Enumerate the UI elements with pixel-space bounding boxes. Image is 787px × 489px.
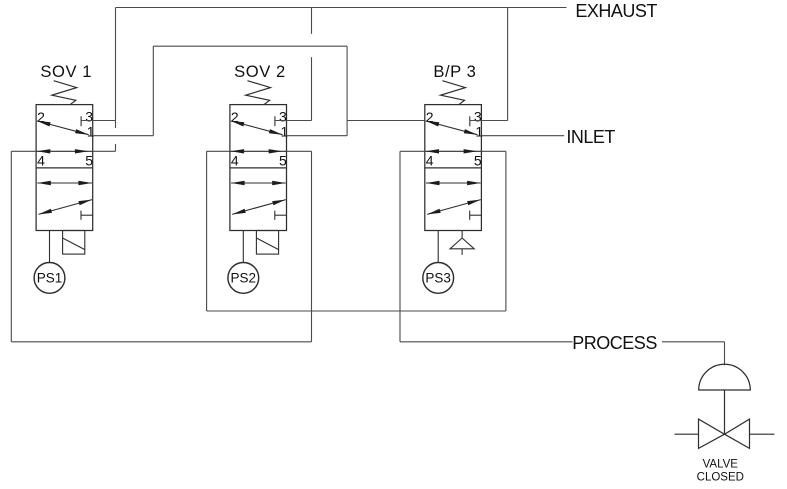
wire B/P3 port3 stub bbox=[470, 120, 508, 122]
flow path 4-5 arrow SOV 2 bbox=[230, 150, 287, 152]
control valve body right bbox=[725, 419, 750, 448]
wire SOV1 port4 stub bbox=[11, 150, 36, 152]
wire crossover left drop to SOV1 port1 bbox=[152, 46, 154, 136]
svg-text:INLET: INLET bbox=[566, 127, 615, 147]
wire B/P3 port5 drop bbox=[505, 151, 507, 311]
wire SOV2 port4 stub bbox=[207, 150, 230, 152]
flow path 4-5 arrow B/P 3 bbox=[425, 150, 482, 152]
wire B/P3 port5 stub bbox=[481, 150, 506, 152]
solenoid coil SOV 2 bbox=[256, 231, 278, 255]
svg-text:1: 1 bbox=[475, 124, 483, 140]
port 3 blocked symbol SOV 1 bbox=[80, 116, 82, 126]
wire SOV2 port5 stub bbox=[287, 150, 312, 152]
wire B/P3 port3 riser to exhaust bbox=[507, 8, 509, 121]
position 2 diagonal arrow B/P 3 bbox=[427, 200, 481, 215]
port 3 blocked symbol B/P 3 bbox=[469, 116, 471, 126]
valve body B/P 3 bbox=[425, 105, 482, 231]
process line to control valve bbox=[662, 341, 725, 343]
process line lower left run bbox=[11, 341, 311, 343]
position 2 flow arrow SOV 2 bbox=[231, 182, 286, 184]
position 2 diagonal arrow SOV 2 bbox=[232, 200, 286, 215]
wire SOV1 port1 stub bbox=[93, 135, 154, 137]
svg-text:1: 1 bbox=[87, 124, 95, 140]
process collector line bbox=[207, 310, 506, 312]
position divider SOV 2 bbox=[230, 167, 287, 169]
control valve outlet line bbox=[750, 433, 775, 435]
svg-text:EXHAUST: EXHAUST bbox=[575, 1, 657, 21]
position divider B/P 3 bbox=[425, 167, 482, 169]
wire branch to B/P3 port2 bbox=[347, 120, 425, 122]
wire SOV2 port3 stub bbox=[275, 120, 312, 122]
pressure switch PS1 circle bbox=[34, 263, 65, 294]
svg-text:4: 4 bbox=[231, 152, 239, 168]
wire SOV1 port3 stub bbox=[81, 120, 115, 122]
valve body SOV 1 bbox=[36, 105, 93, 231]
control valve body left bbox=[699, 419, 725, 448]
svg-text:B/P 3: B/P 3 bbox=[433, 62, 476, 81]
pilot wire to PS3 bbox=[437, 231, 439, 263]
vent tail B/P 3 bbox=[461, 249, 463, 255]
svg-text:3: 3 bbox=[85, 109, 93, 125]
svg-text:SOV 1: SOV 1 bbox=[40, 62, 92, 81]
solenoid diagonal SOV 1 bbox=[63, 238, 85, 250]
svg-text:3: 3 bbox=[474, 109, 482, 125]
control valve inlet line bbox=[675, 433, 699, 435]
svg-text:PS3: PS3 bbox=[425, 270, 451, 285]
svg-text:4: 4 bbox=[37, 152, 45, 168]
wire SOV1 port5 stub bbox=[93, 150, 116, 152]
valve body SOV 2 bbox=[230, 105, 287, 231]
pressure switch PS3 circle bbox=[423, 263, 454, 294]
solenoid coil SOV 1 bbox=[63, 231, 85, 255]
position 2 flow arrow SOV 1 bbox=[37, 182, 92, 184]
actuator diaphragm dome bbox=[699, 364, 751, 390]
EXHAUST header line bbox=[116, 7, 567, 9]
svg-text:5: 5 bbox=[279, 152, 287, 168]
flow path 4-5 arrow SOV 1 bbox=[36, 150, 93, 152]
position 2 flow arrow B/P 3 bbox=[426, 182, 481, 184]
pressure switch PS2 circle bbox=[228, 263, 259, 294]
svg-text:SOV 2: SOV 2 bbox=[234, 62, 286, 81]
position 2 diagonal arrow SOV 1 bbox=[38, 200, 92, 215]
svg-text:3: 3 bbox=[279, 109, 287, 125]
wire SOV2 port3 riser to exhaust bbox=[311, 8, 313, 34]
spring return SOV 2 bbox=[246, 81, 271, 105]
svg-text:5: 5 bbox=[474, 152, 482, 168]
solenoid diagonal SOV 2 bbox=[256, 238, 278, 250]
position 2 blocked symbol SOV 1 bbox=[80, 211, 82, 220]
svg-text:CLOSED: CLOSED bbox=[697, 472, 744, 484]
pilot wire to PS1 bbox=[49, 231, 51, 263]
svg-text:4: 4 bbox=[426, 152, 434, 168]
wire SOV1 port3 riser lower segment bbox=[115, 144, 117, 151]
process line to label bbox=[400, 341, 573, 343]
spring return SOV 1 bbox=[52, 81, 77, 105]
flow path 1-2 arrow SOV 1 bbox=[37, 121, 89, 135]
svg-text:PS1: PS1 bbox=[37, 270, 63, 285]
flow path 1-2 arrow B/P 3 bbox=[426, 121, 478, 135]
vent stub B/P 3 bbox=[461, 231, 463, 239]
wire SOV2 port4 drop bbox=[206, 151, 208, 311]
spring return B/P 3 bbox=[441, 81, 466, 105]
position 2 blocked symbol B/P 3 bbox=[469, 211, 471, 220]
svg-text:VALVE: VALVE bbox=[703, 459, 739, 471]
svg-text:PS2: PS2 bbox=[231, 270, 257, 285]
vent triangle B/P 3 bbox=[450, 238, 474, 249]
wire SOV1 port4 drop bbox=[10, 151, 12, 341]
wire SOV2 port3 riser lower segment bbox=[311, 57, 313, 120]
wire SOV2 port5 drop bbox=[311, 151, 313, 341]
position divider SOV 1 bbox=[36, 167, 93, 169]
control valve stem bbox=[724, 390, 726, 434]
wire B/P3 port4 drop bbox=[399, 151, 401, 341]
wire B/P3 port1 stub to inlet bbox=[481, 135, 564, 137]
svg-text:5: 5 bbox=[85, 152, 93, 168]
wire B/P3 port4 stub bbox=[400, 150, 425, 152]
pilot wire to PS2 bbox=[242, 231, 244, 263]
flow path 1-2 arrow SOV 2 bbox=[231, 121, 283, 135]
port 3 blocked symbol SOV 2 bbox=[274, 116, 276, 126]
wire SOV1 port3 riser to exhaust bbox=[115, 8, 117, 129]
wire crossover right drop to SOV2 port1 bbox=[346, 46, 348, 136]
svg-text:1: 1 bbox=[281, 124, 289, 140]
pilot supply crossover line bbox=[153, 45, 347, 47]
position 2 blocked symbol SOV 2 bbox=[274, 211, 276, 220]
wire SOV2 port1 stub bbox=[287, 135, 348, 137]
svg-text:PROCESS: PROCESS bbox=[572, 333, 657, 353]
control valve riser bbox=[724, 342, 726, 365]
